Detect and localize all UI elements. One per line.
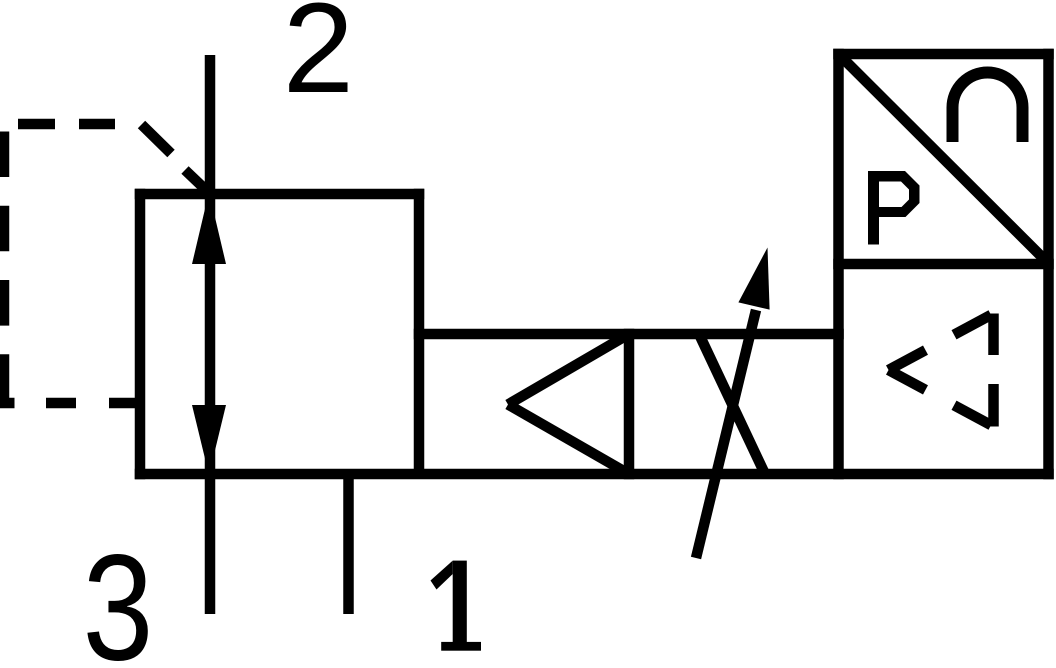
svg-text:2: 2	[283, 0, 354, 120]
svg-text:3: 3	[83, 523, 154, 668]
